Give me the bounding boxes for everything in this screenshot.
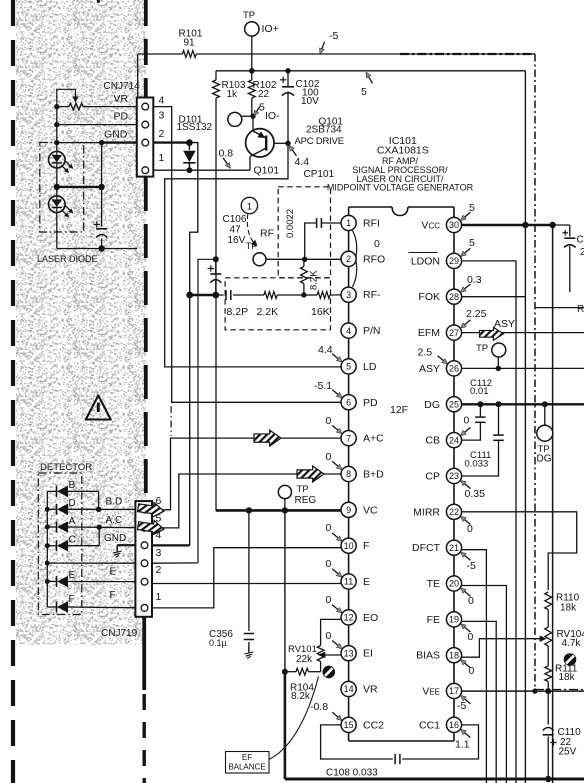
- svg-text:6: 6: [156, 495, 162, 507]
- svg-text:A.C: A.C: [106, 515, 123, 526]
- svg-text:24: 24: [449, 435, 459, 445]
- svg-text:TP: TP: [297, 484, 309, 495]
- svg-text:25V: 25V: [559, 747, 577, 758]
- svg-text:16V: 16V: [228, 235, 246, 246]
- svg-text:Q101: Q101: [254, 165, 280, 177]
- svg-text:VR: VR: [363, 684, 378, 696]
- svg-text:5: 5: [156, 513, 162, 525]
- svg-text:21: 21: [449, 543, 459, 553]
- svg-text:23: 23: [449, 471, 459, 481]
- svg-text:CC2: CC2: [363, 719, 384, 731]
- svg-text:EF: EF: [242, 753, 252, 762]
- svg-text:2: 2: [580, 247, 584, 258]
- svg-text:2: 2: [346, 254, 351, 264]
- svg-text:27: 27: [449, 328, 459, 338]
- svg-text:-5: -5: [467, 560, 476, 572]
- svg-text:-5.1: -5.1: [314, 380, 332, 392]
- svg-text:17: 17: [449, 686, 459, 696]
- svg-text:REG: REG: [295, 495, 317, 506]
- svg-text:0.01: 0.01: [470, 386, 489, 397]
- svg-text:16K: 16K: [311, 306, 330, 318]
- svg-text:1: 1: [156, 591, 162, 603]
- svg-text:5: 5: [469, 237, 475, 249]
- svg-text:30: 30: [449, 220, 459, 230]
- svg-text:P/N: P/N: [363, 325, 381, 337]
- svg-text:0: 0: [326, 451, 332, 463]
- svg-text:22: 22: [449, 507, 459, 517]
- svg-text:4.7k: 4.7k: [562, 638, 582, 649]
- svg-text:0: 0: [326, 630, 332, 642]
- svg-text:C1: C1: [577, 235, 584, 246]
- svg-text:26: 26: [449, 364, 459, 374]
- svg-text:0: 0: [468, 631, 474, 643]
- svg-text:CNJ714: CNJ714: [104, 81, 141, 92]
- svg-text:15: 15: [344, 720, 354, 730]
- svg-text:0: 0: [326, 415, 332, 427]
- svg-text:B.D: B.D: [106, 497, 123, 508]
- svg-text:C106: C106: [223, 214, 247, 225]
- svg-text:3: 3: [346, 290, 351, 300]
- svg-text:8.2P: 8.2P: [227, 306, 249, 318]
- svg-text:PD: PD: [114, 111, 129, 123]
- svg-text:CXA1081S: CXA1081S: [377, 145, 429, 157]
- svg-text:ASY: ASY: [419, 363, 440, 375]
- svg-text:ASY: ASY: [494, 318, 515, 330]
- svg-text:MIRR: MIRR: [413, 506, 440, 518]
- svg-text:F: F: [363, 540, 369, 552]
- svg-text:9: 9: [346, 505, 351, 515]
- svg-text:IO+: IO+: [262, 23, 279, 35]
- svg-text:DETECTOR: DETECTOR: [40, 462, 92, 473]
- svg-text:0: 0: [468, 595, 474, 607]
- svg-text:3: 3: [159, 110, 165, 122]
- svg-text:MIDPOINT VOLTAGE GENERATOR: MIDPOINT VOLTAGE GENERATOR: [327, 183, 474, 193]
- svg-text:2SB734: 2SB734: [306, 125, 342, 136]
- svg-text:0.0022: 0.0022: [285, 209, 296, 238]
- svg-text:29: 29: [449, 256, 459, 266]
- svg-text:APC DRIVE: APC DRIVE: [295, 136, 344, 147]
- svg-text:0: 0: [374, 238, 380, 250]
- svg-text:18k: 18k: [559, 672, 576, 683]
- svg-text:-0.8: -0.8: [310, 701, 328, 713]
- svg-text:TP: TP: [243, 10, 255, 21]
- svg-text:VC: VC: [363, 504, 378, 516]
- svg-text:2: 2: [156, 564, 162, 576]
- svg-text:16: 16: [449, 720, 459, 730]
- svg-text:1: 1: [247, 201, 252, 212]
- svg-text:D: D: [69, 498, 76, 509]
- svg-text:F: F: [110, 590, 116, 601]
- svg-text:3: 3: [156, 547, 162, 559]
- svg-text:E: E: [110, 567, 117, 578]
- svg-text:13: 13: [344, 648, 354, 658]
- svg-text:FE: FE: [427, 614, 440, 626]
- svg-text:CB: CB: [425, 435, 440, 447]
- svg-text:20: 20: [449, 579, 459, 589]
- svg-text:FOK: FOK: [418, 291, 440, 303]
- svg-text:22: 22: [258, 89, 270, 100]
- svg-text:GND: GND: [104, 129, 128, 141]
- svg-text:-5: -5: [457, 700, 466, 712]
- svg-text:R3: R3: [577, 304, 584, 315]
- svg-text:12: 12: [344, 613, 354, 623]
- svg-text:22k: 22k: [296, 654, 313, 665]
- svg-text:4: 4: [346, 326, 351, 336]
- svg-text:A: A: [69, 516, 76, 527]
- svg-text:RF: RF: [260, 228, 274, 240]
- svg-text:RFO: RFO: [363, 253, 385, 265]
- svg-text:4.4: 4.4: [295, 156, 310, 168]
- svg-text:DG: DG: [537, 454, 552, 465]
- svg-text:2.25: 2.25: [466, 308, 487, 320]
- svg-text:4.4: 4.4: [318, 344, 333, 356]
- svg-text:28: 28: [449, 292, 459, 302]
- svg-text:8.2k: 8.2k: [291, 691, 311, 702]
- svg-text:LD: LD: [363, 361, 377, 373]
- svg-text:VEE: VEE: [422, 686, 440, 698]
- svg-text:GND: GND: [104, 533, 126, 544]
- svg-text:11: 11: [344, 577, 353, 587]
- svg-text:LDON: LDON: [411, 255, 440, 267]
- svg-text:TE: TE: [427, 578, 440, 590]
- svg-text:VR: VR: [114, 93, 129, 105]
- svg-text:0.1µ: 0.1µ: [209, 638, 227, 648]
- svg-text:2.5: 2.5: [418, 347, 433, 359]
- svg-text:0.033: 0.033: [465, 459, 489, 470]
- svg-text:7: 7: [346, 433, 351, 443]
- svg-text:BIAS: BIAS: [416, 650, 440, 662]
- svg-text:1: 1: [346, 218, 351, 228]
- svg-text:TP: TP: [476, 343, 488, 354]
- svg-text:CP: CP: [425, 471, 440, 483]
- svg-text:1k: 1k: [227, 89, 239, 100]
- svg-text:RF-: RF-: [363, 289, 381, 301]
- svg-text:25: 25: [449, 399, 459, 409]
- svg-text:TP: TP: [246, 241, 258, 252]
- svg-text:IO-: IO-: [265, 110, 280, 122]
- svg-text:EFM: EFM: [418, 327, 440, 339]
- svg-text:B: B: [69, 480, 76, 491]
- svg-text:EI: EI: [363, 648, 373, 660]
- svg-text:4: 4: [156, 529, 162, 541]
- svg-text:5: 5: [346, 362, 351, 372]
- svg-text:5: 5: [469, 202, 475, 214]
- svg-text:RFI: RFI: [363, 218, 380, 230]
- svg-text:8.2K: 8.2K: [309, 270, 320, 290]
- svg-text:0: 0: [469, 665, 475, 677]
- svg-text:E: E: [363, 576, 370, 588]
- svg-text:4: 4: [159, 94, 165, 106]
- svg-text:1.1: 1.1: [455, 739, 470, 751]
- svg-text:14: 14: [344, 684, 354, 694]
- svg-text:VCC: VCC: [421, 220, 440, 232]
- svg-text:2.2K: 2.2K: [257, 306, 279, 318]
- svg-text:18k: 18k: [560, 603, 577, 614]
- svg-text:18: 18: [449, 650, 459, 660]
- svg-text:10V: 10V: [301, 96, 319, 107]
- svg-text:F: F: [69, 594, 75, 605]
- svg-text:0: 0: [326, 558, 332, 570]
- svg-text:DFCT: DFCT: [412, 542, 441, 554]
- svg-text:0: 0: [467, 523, 473, 535]
- svg-text:-5: -5: [329, 30, 338, 42]
- svg-text:5: 5: [361, 86, 367, 98]
- svg-text:1SS132: 1SS132: [177, 122, 213, 133]
- svg-text:A+C: A+C: [363, 433, 384, 445]
- svg-text:10: 10: [344, 541, 354, 551]
- svg-text:0: 0: [464, 415, 470, 427]
- svg-text:C108 0.033: C108 0.033: [326, 768, 378, 779]
- svg-text:CP101: CP101: [304, 169, 335, 180]
- svg-text:0.35: 0.35: [465, 488, 486, 500]
- svg-text:2: 2: [159, 128, 165, 140]
- svg-text:PD: PD: [363, 397, 378, 409]
- svg-text:BALANCE: BALANCE: [228, 763, 265, 772]
- svg-text:DG: DG: [424, 399, 440, 411]
- svg-text:B+D: B+D: [363, 469, 384, 481]
- svg-text:0.8: 0.8: [219, 148, 234, 160]
- svg-text:EO: EO: [363, 612, 378, 624]
- svg-text:0: 0: [326, 522, 332, 534]
- svg-text:19: 19: [449, 615, 459, 625]
- svg-text:CC1: CC1: [419, 719, 440, 731]
- svg-text:8: 8: [346, 469, 351, 479]
- svg-text:6: 6: [346, 397, 351, 407]
- svg-text:91: 91: [184, 38, 196, 49]
- svg-text:0.3: 0.3: [467, 274, 482, 286]
- svg-text:47: 47: [230, 225, 242, 236]
- svg-text:LASER DIODE: LASER DIODE: [37, 254, 98, 264]
- svg-text:12F: 12F: [390, 404, 408, 416]
- svg-text:0: 0: [326, 594, 332, 606]
- svg-text:E: E: [69, 570, 76, 581]
- svg-text:CNJ719: CNJ719: [101, 628, 138, 639]
- svg-text:C: C: [69, 535, 76, 546]
- svg-text:1: 1: [159, 152, 165, 164]
